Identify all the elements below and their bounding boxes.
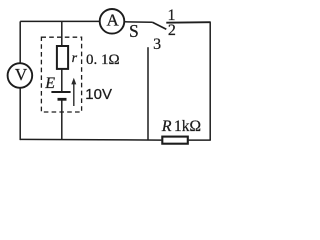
label R 1kΩ — [161, 118, 201, 135]
wire: left side, corner down to voltmeter — [19, 21, 21, 63]
svg-text:A: A — [107, 11, 120, 30]
svg-text:V: V — [15, 65, 28, 84]
svg-text:E: E — [44, 75, 55, 92]
wire: contact 3 vertical down to bottom wire — [147, 47, 149, 140]
svg-text:2: 2 — [168, 22, 176, 39]
wire: bottom, left corner to resistor R — [20, 138, 161, 141]
switch contact 1 terminal line — [166, 21, 210, 24]
wire: right side vertical — [209, 22, 211, 140]
wire: left side, voltmeter down to bottom corner — [19, 88, 21, 140]
emf direction arrow — [71, 78, 76, 106]
battery E: short thick plate — [58, 98, 67, 101]
svg-text:r: r — [72, 51, 78, 66]
wire: top, left corner to ammeter — [20, 20, 100, 22]
wire: battery to bottom wire — [61, 99, 63, 140]
svg-text:3: 3 — [153, 36, 161, 53]
internal resistance r — [57, 46, 68, 69]
svg-text:S: S — [129, 21, 139, 41]
resistor R — [162, 137, 188, 144]
svg-text:10V: 10V — [85, 86, 112, 103]
wire: resistor R to right corner — [189, 139, 211, 141]
svg-text:1kΩ: 1kΩ — [174, 118, 201, 135]
battery dashed outline box — [41, 37, 81, 112]
wire: ammeter to switch pole — [124, 21, 152, 24]
svg-text:R: R — [161, 118, 172, 135]
voltmeter V — [8, 63, 33, 88]
switch S blade — [152, 22, 166, 29]
svg-text:0. 1Ω: 0. 1Ω — [86, 52, 120, 68]
wire: r to battery plates — [61, 69, 63, 92]
ammeter A — [100, 9, 125, 34]
battery E: long plate — [51, 91, 70, 93]
wire: battery branch, top wire down to r — [61, 21, 63, 46]
